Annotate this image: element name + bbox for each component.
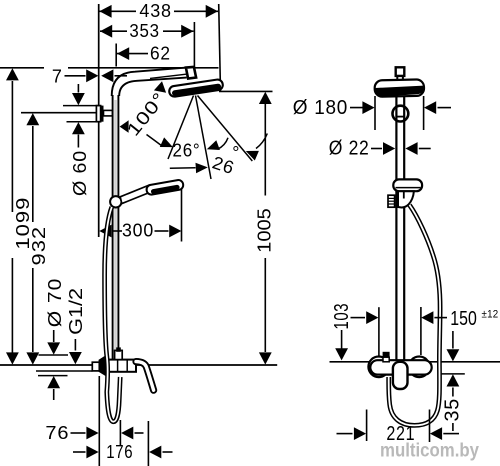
- mixer lever handle (left view): [136, 362, 154, 391]
- svg-text:Ø 22: Ø 22: [329, 137, 370, 160]
- dimension D70 extension lines: [39, 354, 69, 356]
- svg-text:Ø 180: Ø 180: [293, 96, 348, 119]
- ball joint circle: [393, 106, 409, 122]
- svg-text:62: 62: [150, 43, 171, 63]
- dimension D70: [53, 330, 55, 342]
- pipe curve and shower arm (left view): [112, 68, 187, 96]
- dimension D60: [77, 84, 79, 93]
- svg-text:35: 35: [440, 398, 463, 422]
- dimension 353: [100, 30, 127, 32]
- hose (left view): [105, 207, 121, 422]
- dimension 932 top extension line: [21, 112, 100, 114]
- svg-text:G1/2: G1/2: [66, 288, 86, 335]
- holder knob with ridges: [388, 195, 395, 207]
- svg-text:176: 176: [106, 442, 133, 462]
- pipe inner shading: [114, 100, 117, 358]
- mixer supply nut (left view): [92, 362, 99, 371]
- pipe joint line inside ball: [396, 116, 404, 118]
- wall bracket plate: [96, 106, 100, 122]
- dimension 76/176 wall extension line: [98, 376, 100, 466]
- dimension 176: [73, 451, 86, 453]
- hose (right view): [389, 205, 440, 425]
- dimension 176 right extension line: [147, 421, 149, 466]
- dimension 62 left extension line: [115, 44, 117, 67]
- svg-text:26°: 26°: [173, 140, 201, 160]
- dimension 221 extension lines: [366, 410, 368, 442]
- dimension 221: [337, 433, 353, 435]
- mixer lever (front view): [393, 362, 408, 389]
- dimension 76 right extension line: [119, 420, 121, 446]
- angle 100 arrow at arm: [154, 81, 166, 93]
- supply pipe lower line: [36, 370, 93, 372]
- svg-text:°: °: [232, 143, 240, 163]
- vertical pipe (left view): [112, 95, 114, 360]
- vertical pipe (right view): [395, 97, 397, 361]
- diverter knob: [383, 352, 390, 358]
- spray line C (center): [196, 96, 212, 180]
- svg-text:multicom.by: multicom.by: [380, 440, 479, 461]
- head stem joint: [186, 67, 196, 79]
- mixer body (left view): [107, 360, 136, 372]
- top stem square (right view): [396, 67, 405, 76]
- angle 26 first: right arrow and leader: [218, 138, 229, 149]
- angle 26 first: left arrow and leader: [147, 135, 163, 147]
- dimension 35: [452, 331, 454, 349]
- hand shower head (side view): [146, 179, 184, 195]
- svg-text:103: 103: [330, 303, 353, 330]
- dimension 300 right extension line: [181, 189, 183, 242]
- svg-text:±12: ±12: [482, 309, 499, 321]
- dimension 300: [99, 225, 111, 238]
- wall reference line (left view): [98, 4, 100, 237]
- dimension D180 extension lines: [374, 96, 376, 130]
- svg-text:76: 76: [45, 423, 69, 443]
- svg-text:438: 438: [139, 1, 171, 21]
- hand shower handle: [120, 185, 151, 203]
- stem neck: [396, 76, 398, 81]
- svg-text:Ø 70: Ø 70: [45, 278, 65, 328]
- svg-text:150: 150: [450, 307, 477, 330]
- angle 26 second: right arrow and leader: [256, 134, 267, 149]
- mixer escutcheon cone (left view): [99, 356, 106, 376]
- dimension 1005 top extension line: [219, 90, 273, 92]
- top extension line (unit top, 1099 reference): [0, 67, 219, 69]
- dimension 1005: [264, 104, 266, 196]
- dimension G1/2: [74, 339, 76, 351]
- supply reference line (left view): [0, 364, 277, 366]
- hand shower head (front view): [393, 179, 422, 191]
- dimension 150 extension lines: [378, 307, 380, 356]
- dimension 62: [117, 53, 148, 55]
- dimension 438 right extension line: [219, 4, 221, 91]
- mixer body (front view): [370, 360, 431, 374]
- hand shower holder circle: [110, 196, 121, 207]
- svg-text:300: 300: [122, 221, 154, 241]
- overhead shower head (front view): [375, 79, 425, 96]
- mixer escutcheon circles (right view): [368, 357, 389, 378]
- arm highlight line: [150, 74, 186, 78]
- angle 100 arrow at pipe: [120, 120, 129, 133]
- dimension 35 bottom extension line: [442, 373, 465, 375]
- hand shower body / holder cup: [398, 191, 414, 207]
- svg-text:Ø 60: Ø 60: [70, 150, 90, 196]
- dimension D60 extension lines: [63, 105, 99, 107]
- dimension 1099 (vertical, left): [11, 81, 13, 212]
- mixer top fitting (left view): [115, 350, 123, 359]
- dimension 932 (vertical, left): [32, 126, 34, 222]
- svg-text:353: 353: [129, 21, 159, 41]
- svg-text:1005: 1005: [254, 208, 274, 253]
- spray line D (right): [198, 96, 253, 162]
- angle 26 second: left leader and arrow: [170, 167, 196, 170]
- spray line A (left): [168, 96, 194, 160]
- svg-text:932: 932: [29, 226, 49, 266]
- supply reference line (right view): [330, 361, 500, 363]
- overhead shower head (side view): [169, 79, 224, 97]
- dimension 150 +-12: [421, 311, 433, 324]
- svg-text:7: 7: [52, 66, 63, 86]
- wall bracket stem: [104, 110, 113, 116]
- dimension 438: [99, 10, 136, 12]
- dimension 7: [44, 60, 68, 86]
- dimension 353 right extension line: [193, 22, 195, 70]
